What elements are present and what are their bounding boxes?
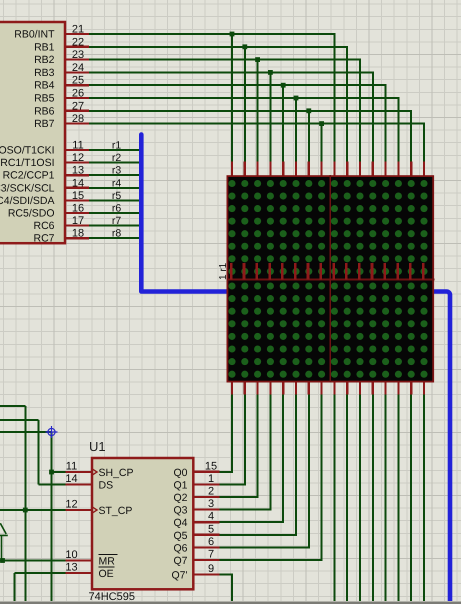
svg-text:1 r1: 1 r1 (218, 262, 229, 280)
svg-text:RC1/T1OSI: RC1/T1OSI (0, 157, 54, 169)
svg-text:RC4/SDI/SDA: RC4/SDI/SDA (0, 195, 55, 207)
svg-text:RC6: RC6 (33, 220, 54, 232)
svg-text:Q3: Q3 (173, 505, 187, 517)
svg-text:17: 17 (72, 215, 84, 227)
svg-text:r1: r1 (112, 140, 121, 152)
svg-text:r5: r5 (112, 190, 121, 202)
svg-text:Q5: Q5 (173, 530, 187, 542)
svg-text:ST_CP: ST_CP (99, 505, 133, 517)
svg-text:SH_CP: SH_CP (99, 467, 134, 479)
svg-text:OE: OE (99, 568, 114, 580)
svg-text:27: 27 (72, 100, 84, 112)
svg-text:6: 6 (208, 536, 214, 548)
svg-text:RC3/SCK/SCL: RC3/SCK/SCL (0, 182, 55, 194)
svg-text:RC5/SDO: RC5/SDO (8, 208, 55, 220)
svg-text:13: 13 (72, 165, 84, 177)
svg-text:22: 22 (72, 36, 84, 48)
svg-text:RB3: RB3 (34, 67, 55, 79)
svg-text:15: 15 (205, 460, 217, 472)
svg-text:23: 23 (72, 49, 84, 61)
svg-text:Q6: Q6 (173, 542, 187, 554)
svg-text:RB6: RB6 (34, 105, 55, 117)
svg-text:r3: r3 (112, 165, 121, 177)
svg-text:r4: r4 (112, 177, 121, 189)
svg-text:r2: r2 (112, 152, 121, 164)
svg-text:12: 12 (72, 152, 84, 164)
svg-text:RC2/CCP1: RC2/CCP1 (3, 170, 55, 182)
svg-text:Q2: Q2 (173, 492, 187, 504)
svg-text:10: 10 (65, 549, 77, 561)
svg-text:9: 9 (208, 563, 214, 575)
svg-text:16: 16 (72, 203, 84, 215)
svg-text:24: 24 (72, 62, 84, 74)
svg-text:r7: r7 (112, 215, 121, 227)
svg-text:RB5: RB5 (34, 93, 55, 105)
svg-text:14: 14 (65, 473, 77, 485)
svg-text:26: 26 (72, 88, 84, 100)
svg-text:25: 25 (72, 75, 84, 87)
svg-text:21: 21 (72, 24, 84, 36)
svg-text:2: 2 (208, 486, 214, 498)
svg-text:DS: DS (99, 480, 114, 492)
svg-text:MR: MR (99, 556, 116, 568)
svg-text:1: 1 (208, 473, 214, 485)
svg-text:5: 5 (208, 523, 214, 535)
svg-text:r8: r8 (112, 228, 121, 240)
svg-text:13: 13 (65, 562, 77, 574)
svg-text:RB7: RB7 (34, 118, 55, 130)
svg-text:RB0/INT: RB0/INT (14, 29, 55, 41)
svg-text:18: 18 (72, 228, 84, 240)
svg-text:RB1: RB1 (34, 41, 55, 53)
svg-text:12: 12 (65, 499, 77, 511)
svg-text:RB4: RB4 (34, 80, 55, 92)
svg-text:3: 3 (208, 498, 214, 510)
svg-text:Q0: Q0 (173, 467, 187, 479)
svg-text:4: 4 (208, 511, 214, 523)
svg-text:14: 14 (72, 177, 84, 189)
svg-text:11: 11 (72, 140, 83, 152)
svg-text:RC7: RC7 (33, 233, 54, 245)
svg-text:r6: r6 (112, 203, 121, 215)
svg-text:RB2: RB2 (34, 54, 55, 66)
svg-text:28: 28 (72, 113, 84, 125)
svg-text:Q1: Q1 (173, 479, 187, 491)
svg-text:11: 11 (66, 461, 77, 473)
svg-text:T1OSO/T1CKI: T1OSO/T1CKI (0, 145, 55, 157)
svg-text:Q4: Q4 (173, 517, 187, 529)
svg-text:Q7': Q7' (171, 570, 187, 582)
svg-text:7: 7 (208, 549, 214, 561)
svg-text:15: 15 (72, 190, 84, 202)
svg-text:U1: U1 (89, 439, 106, 454)
svg-text:Q7: Q7 (173, 555, 187, 567)
